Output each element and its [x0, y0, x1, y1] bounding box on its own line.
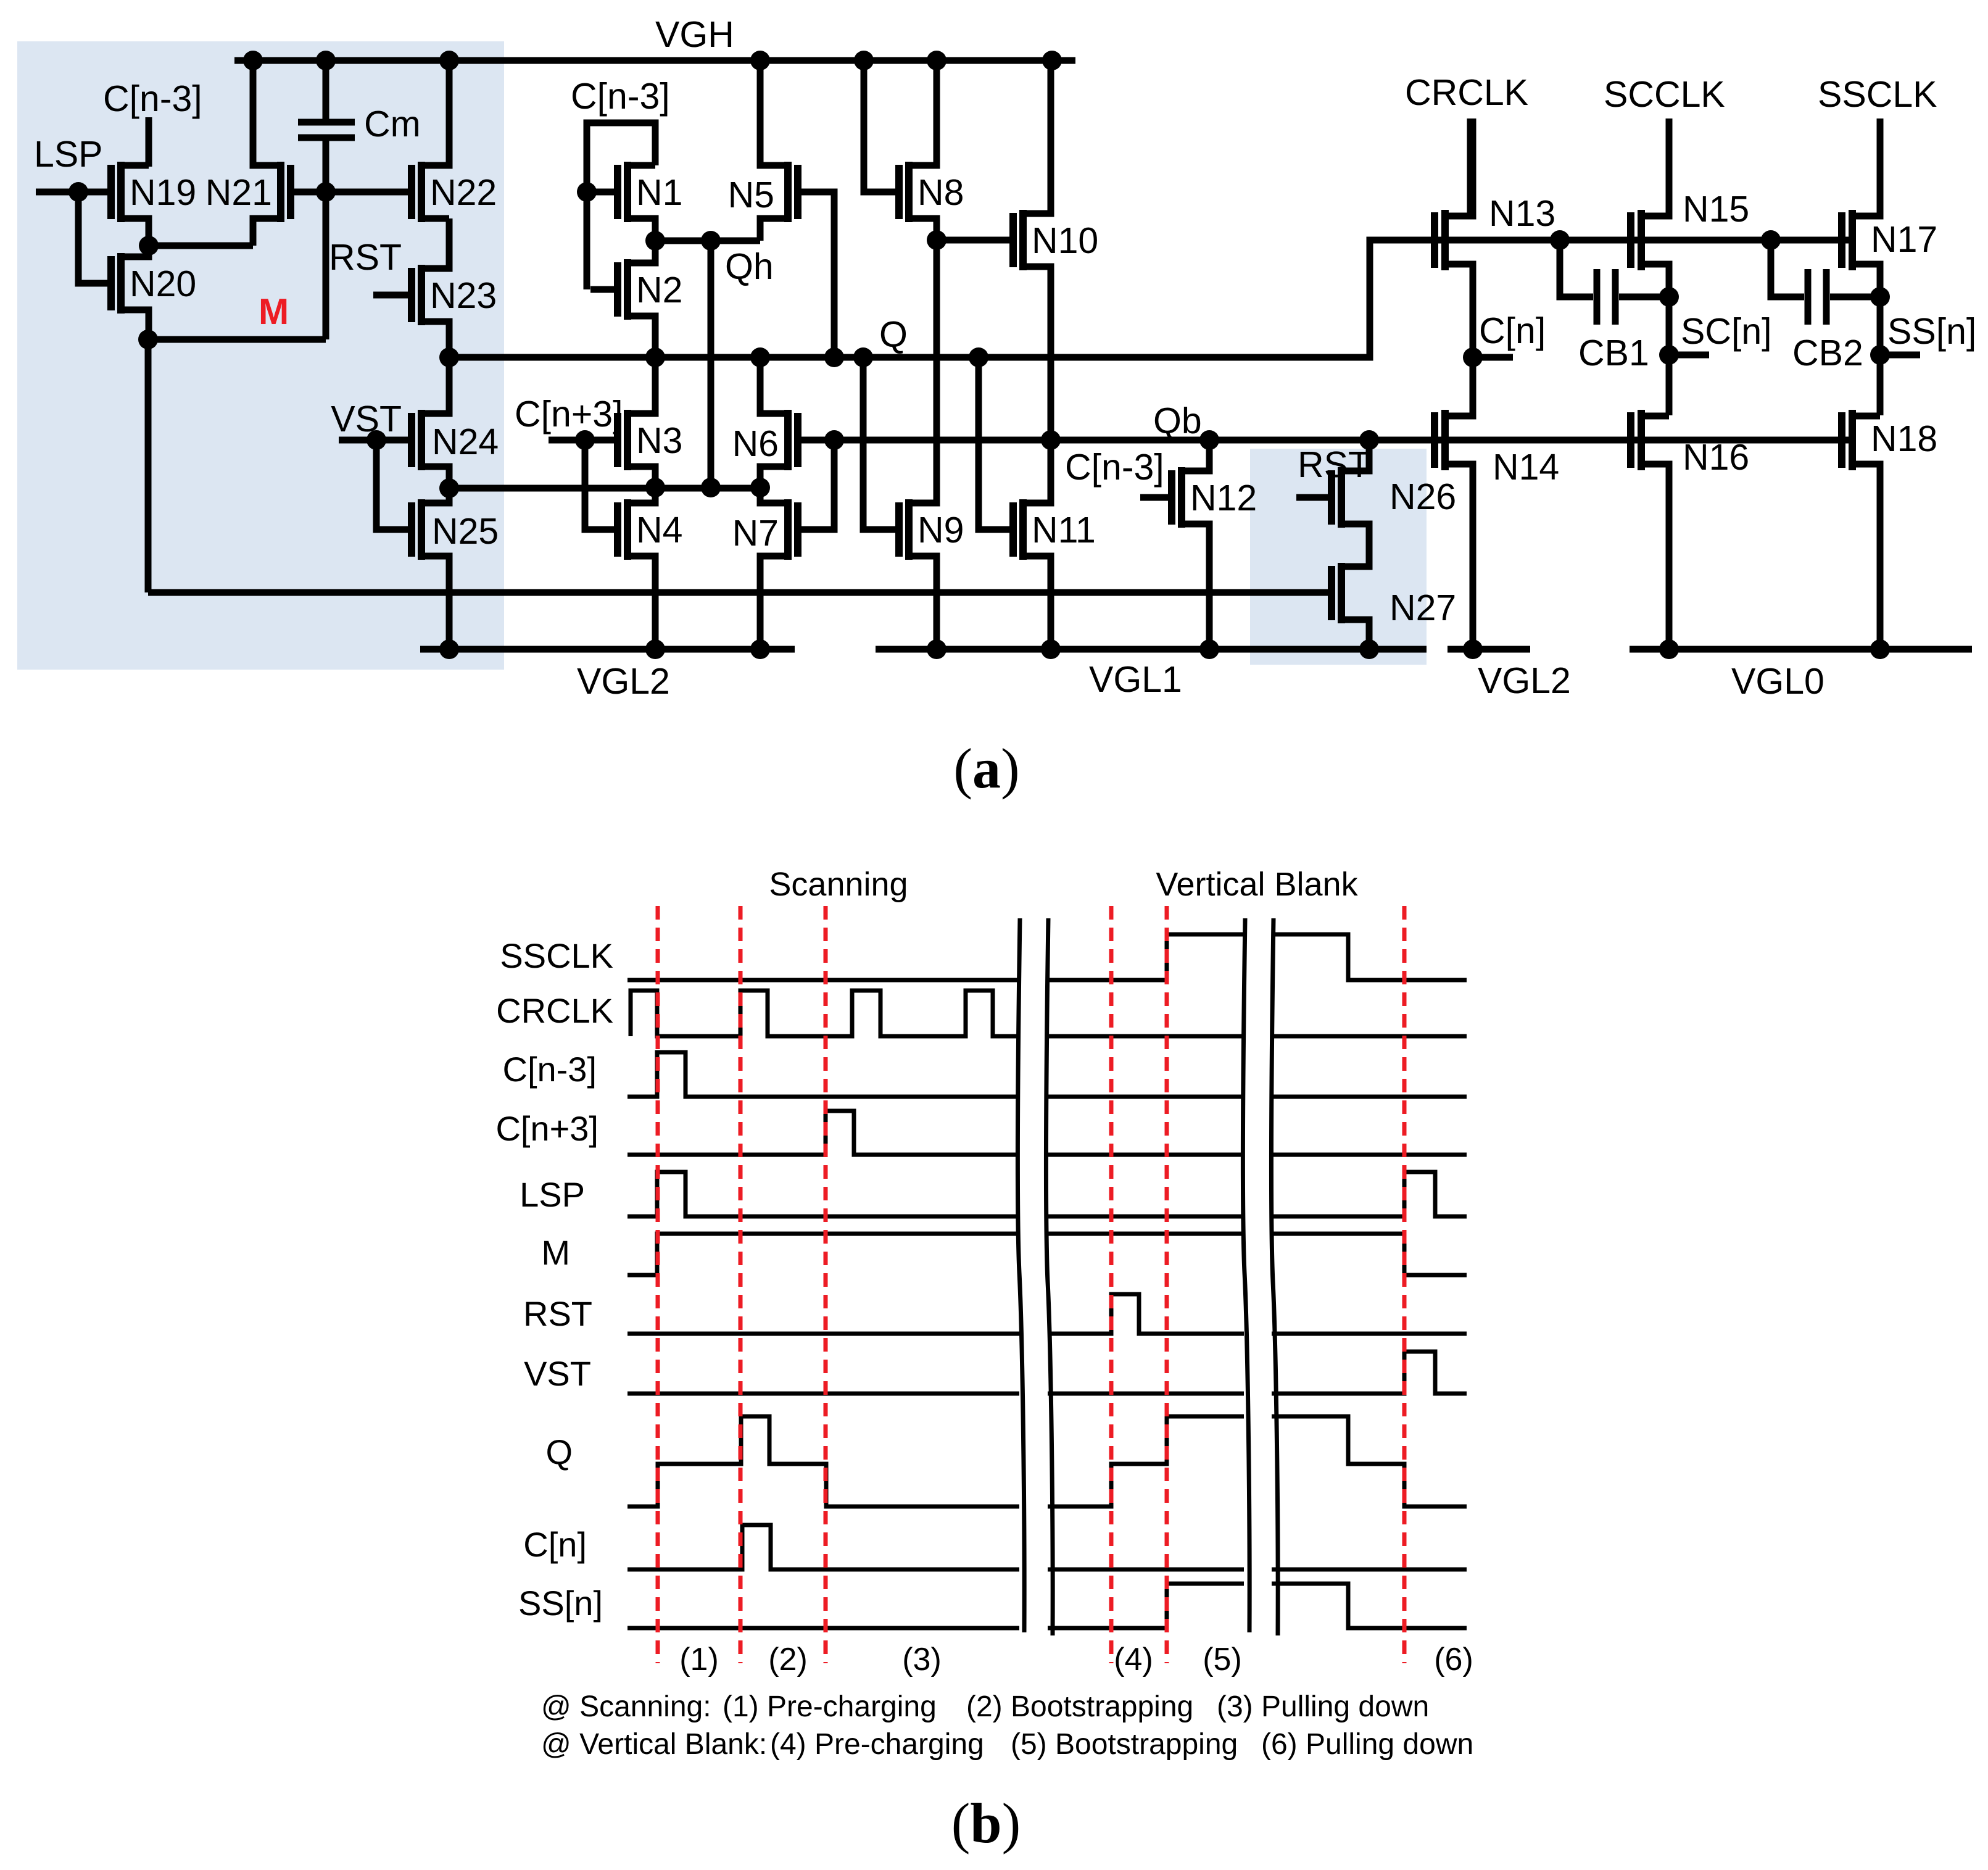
svg-text:Qh: Qh — [725, 246, 774, 287]
junction dot VST — [367, 430, 386, 450]
svg-text:(3): (3) — [902, 1642, 942, 1677]
svg-text:M: M — [541, 1233, 570, 1272]
svg-text:(5) Bootstrapping: (5) Bootstrapping — [1011, 1728, 1238, 1761]
svg-text:N14: N14 — [1493, 447, 1559, 488]
transistor N27 — [1332, 563, 1341, 623]
shaded region: N26/N27 block — [1250, 449, 1427, 665]
svg-text:Vertical Blank: Vertical Blank — [1156, 866, 1358, 903]
svg-text:N10: N10 — [1032, 220, 1098, 261]
svg-text:LSP: LSP — [520, 1175, 585, 1214]
transistor N3 — [618, 410, 627, 470]
wire N17-N18 chain — [1877, 297, 1884, 415]
junction dot VGL1 x=1703 — [1041, 639, 1061, 659]
wire VST to N25 gate — [376, 440, 408, 530]
junction dot N19/N20 — [139, 236, 159, 256]
wire N5 gate to Q — [801, 192, 834, 357]
junction dot SS[n] — [1870, 345, 1890, 365]
red dashed line 4 — [1109, 906, 1114, 1663]
waveform LSP part2 — [1048, 1215, 1244, 1219]
waveform LSP part1 — [627, 1172, 1019, 1216]
waveform C[n] part1 — [627, 1525, 1019, 1569]
transistor N25 — [412, 499, 421, 560]
svg-text:Cm: Cm — [364, 104, 421, 144]
wire VST lead — [339, 437, 408, 444]
svg-text:Q: Q — [879, 314, 908, 355]
wire C[n-3] to N19 drain — [146, 117, 152, 167]
junction dot SS chain CB2 — [1870, 287, 1890, 307]
junction dot Q x=1399 — [853, 347, 873, 367]
junction dot N20 source M — [138, 330, 158, 349]
svg-text:N18: N18 — [1871, 418, 1937, 459]
svg-text:N8: N8 — [917, 172, 964, 213]
junction dot Q x=1062 — [645, 347, 665, 367]
transistor N5 — [788, 162, 798, 222]
svg-text:N11: N11 — [1032, 510, 1096, 551]
wire M down-left long — [145, 339, 152, 592]
junction dot Qb x=1703 — [1041, 430, 1061, 450]
svg-text:RST: RST — [329, 237, 402, 278]
junction dot Q x=1586 — [969, 347, 988, 367]
svg-text:N7: N7 — [732, 513, 779, 554]
red dashed line 2 — [739, 906, 743, 1663]
wire LSP to N20 gate — [78, 192, 107, 283]
svg-text:(3) Pulling down: (3) Pulling down — [1217, 1690, 1429, 1723]
wire SSCLK lead — [1877, 118, 1884, 216]
svg-text:N20: N20 — [130, 264, 196, 304]
svg-text:N4: N4 — [636, 510, 682, 551]
transistor N23 — [412, 265, 421, 325]
junction dot N24/N25 — [439, 478, 459, 498]
svg-text:N22: N22 — [430, 172, 497, 213]
junction dot VGL0 x=3047 — [1870, 639, 1890, 659]
transistor N17 — [1842, 210, 1852, 270]
wire SCCLK lead — [1666, 118, 1673, 216]
svg-text:SSCLK: SSCLK — [500, 936, 613, 975]
red dashed line 5 — [1165, 906, 1169, 1663]
svg-text:(a): (a) — [953, 737, 1019, 800]
capacitor Cm — [298, 60, 355, 192]
svg-text:VGL2: VGL2 — [577, 661, 670, 702]
svg-text:C[n]: C[n] — [1479, 310, 1546, 351]
svg-text:SS[n]: SS[n] — [518, 1584, 603, 1623]
waveform VST part2 — [1048, 1392, 1244, 1396]
transistor N11 — [1013, 499, 1023, 560]
svg-text:RST: RST — [523, 1294, 592, 1333]
svg-text:C[n-3]: C[n-3] — [1065, 447, 1164, 488]
svg-text:(4): (4) — [1114, 1642, 1153, 1677]
junction dot row790 x=1232 — [750, 478, 770, 497]
junction dot Qb x=2219 — [1359, 430, 1379, 450]
svg-text:SCCLK: SCCLK — [1604, 74, 1725, 115]
junction dot VGH x=1400 — [854, 51, 874, 70]
transistor N8 — [899, 162, 909, 222]
red dashed line 3 — [824, 906, 828, 1663]
svg-text:C[n+3]: C[n+3] — [515, 394, 623, 434]
svg-text:CRCLK: CRCLK — [1405, 72, 1528, 113]
transistor N1 — [618, 162, 627, 222]
junction dot VGL0 x=2705 — [1659, 639, 1679, 659]
net Qb wire — [801, 437, 1856, 444]
transistor N15 — [1631, 210, 1641, 270]
capacitor CB2 — [1771, 240, 1880, 325]
junction dot Q start N23/N24 — [439, 347, 459, 367]
svg-text:(1): (1) — [679, 1642, 719, 1677]
waveform M part3 — [1272, 1234, 1467, 1275]
waveform SSCLK part2 — [1048, 934, 1244, 980]
wire N8 gate to VGH — [864, 60, 895, 192]
transistor N24 — [412, 410, 421, 470]
svg-text:N12: N12 — [1190, 478, 1257, 518]
svg-text:SC[n]: SC[n] — [1681, 311, 1772, 352]
svg-text:N16: N16 — [1683, 437, 1749, 478]
waveform Q part3 — [1272, 1416, 1467, 1506]
svg-text:(b): (b) — [951, 1792, 1021, 1855]
waveform RST part3 — [1272, 1332, 1467, 1336]
junction dot SC[n] — [1659, 345, 1679, 365]
junction dot Q x=1352 — [824, 347, 844, 367]
svg-text:N13: N13 — [1489, 193, 1555, 234]
transistor N7 — [788, 499, 798, 560]
wire M horizontal — [148, 336, 326, 343]
waveform C[n] part3 — [1272, 1568, 1467, 1572]
waveform M part2 — [1048, 1232, 1244, 1236]
VGL2 left rail — [420, 646, 795, 653]
transistor N14 — [1435, 410, 1445, 470]
junction dot VGL1 x=1960 — [1199, 639, 1219, 659]
svg-text:N26: N26 — [1390, 476, 1456, 517]
transistor N16 — [1631, 410, 1641, 470]
svg-text:SS[n]: SS[n] — [1887, 311, 1976, 352]
svg-text:N15: N15 — [1683, 189, 1749, 230]
junction dot VGH x=1232 — [750, 51, 770, 70]
svg-text:(5): (5) — [1203, 1642, 1242, 1677]
shaded region: left memory block — [17, 41, 504, 670]
net Q rail — [449, 240, 1856, 357]
node M vertical — [323, 192, 329, 339]
waveform RST part1 — [627, 1332, 1019, 1336]
svg-text:Q: Q — [545, 1432, 573, 1471]
svg-text:N6: N6 — [732, 423, 779, 464]
svg-text:VST: VST — [524, 1354, 591, 1393]
wire C[n+3] to N4 gate — [585, 440, 618, 530]
waveform RST part2 — [1048, 1294, 1244, 1334]
transistor N9 — [899, 499, 909, 560]
waveform CRCLK part1 — [631, 991, 1019, 1036]
svg-text:VGH: VGH — [655, 14, 734, 55]
svg-text:CB2: CB2 — [1792, 333, 1863, 373]
junction dot SC chain CB1 — [1659, 287, 1679, 307]
waveform SS[n] part3 — [1272, 1584, 1467, 1628]
wire CRCLK lead — [1467, 118, 1474, 216]
junction dot row790 x=1062 — [645, 478, 665, 497]
wire N7 gate to Qb — [801, 440, 834, 530]
waveform SSCLK part3 — [1272, 934, 1467, 980]
svg-text:N5: N5 — [728, 175, 774, 215]
junction dot LSP — [68, 182, 88, 202]
junction dot N8 source — [927, 230, 946, 250]
junction dot row790 Qh — [701, 478, 721, 497]
svg-text:CB1: CB1 — [1578, 333, 1649, 373]
wire long M-to-N27 gate — [148, 589, 1328, 596]
capacitor CB1 — [1560, 240, 1669, 325]
svg-text:Scanning: Scanning — [769, 866, 908, 903]
junction dot N1 gate — [577, 182, 597, 202]
svg-text:(2): (2) — [768, 1642, 808, 1677]
svg-text:N3: N3 — [636, 420, 682, 461]
svg-text:LSP: LSP — [34, 134, 103, 175]
junction dot CB2 tap — [1761, 230, 1781, 250]
svg-text:VGL2: VGL2 — [1478, 660, 1571, 701]
waveform CRCLK part2 — [1048, 1034, 1244, 1039]
junction dot VGH x=528 — [316, 51, 336, 70]
junction dot Qb x=1960 — [1199, 430, 1219, 450]
VGL1 rail — [876, 646, 1427, 653]
junction dot M node — [316, 182, 336, 202]
svg-text:VGL0: VGL0 — [1731, 661, 1824, 702]
svg-text:N1: N1 — [636, 172, 682, 213]
wire C[n+3] lead — [549, 437, 618, 444]
svg-text:(6) Pulling down: (6) Pulling down — [1261, 1728, 1473, 1761]
wire RST stub N23 — [373, 292, 408, 299]
break 2 curves — [1243, 918, 1278, 1635]
transistor N21 — [281, 162, 291, 222]
transistor N4 — [618, 499, 627, 560]
waveform M part1 — [627, 1234, 1019, 1275]
transistor N19 — [111, 162, 121, 222]
wire N11 gate to Q — [979, 357, 1009, 530]
transistor N20 — [111, 253, 121, 314]
junction dot VGL2-right x=2387 — [1463, 639, 1483, 659]
wire C[n-3] staple — [587, 123, 655, 289]
break 1 curves — [1017, 918, 1053, 1635]
wire LSP lead — [36, 189, 107, 196]
svg-text:SSCLK: SSCLK — [1818, 74, 1937, 115]
junction dot VGL1 x=2219 — [1359, 639, 1379, 659]
junction dot VGH x=728 — [439, 51, 459, 70]
wire Qh vertical — [708, 241, 714, 488]
junction dot VGL2-left x=728 — [439, 639, 459, 659]
wire N26 gate stub — [1296, 494, 1328, 501]
svg-text:M: M — [259, 291, 289, 332]
waveform LSP part3 — [1272, 1172, 1467, 1216]
VGL2 right rail — [1448, 646, 1530, 653]
junction dot Qb x=1352 — [824, 430, 844, 450]
junction dot VGH x=1518 — [927, 51, 946, 70]
waveform C[n+3] part3 — [1272, 1153, 1467, 1157]
wire N12 gate stub — [1140, 494, 1168, 501]
junction dot VGH x=410 — [243, 51, 263, 70]
waveform C[n+3] part2 — [1048, 1153, 1244, 1157]
waveform C[n-3] part2 — [1048, 1095, 1244, 1099]
svg-text:(2) Bootstrapping: (2) Bootstrapping — [966, 1690, 1193, 1723]
wire N15-N16 chain — [1666, 297, 1673, 415]
waveform SSCLK part1 — [627, 978, 1019, 983]
wire C[n] stub — [1473, 354, 1513, 361]
svg-text:@ Vertical Blank:: @ Vertical Blank: — [541, 1728, 767, 1761]
waveform C[n] part2 — [1048, 1568, 1244, 1572]
svg-text:VST: VST — [331, 399, 402, 439]
red dashed line 6 — [1402, 906, 1407, 1663]
svg-text:N21: N21 — [205, 172, 272, 213]
junction dot Qh node — [645, 231, 665, 251]
svg-text:N2: N2 — [636, 270, 682, 310]
wire SS[n] stub — [1880, 352, 1920, 359]
svg-text:N27: N27 — [1390, 588, 1456, 628]
transistor N10 — [1013, 210, 1023, 270]
transistor N13 — [1435, 210, 1445, 270]
waveform CRCLK part3 — [1272, 1034, 1467, 1039]
svg-text:VGL1: VGL1 — [1089, 659, 1182, 700]
transistor N26 — [1332, 467, 1341, 528]
junction dot Q x=1232 — [750, 347, 770, 367]
waveform C[n-3] part1 — [627, 1052, 1019, 1097]
junction dot VGL1 x=1518 — [927, 639, 946, 659]
svg-text:C[n-3]: C[n-3] — [503, 1050, 597, 1089]
svg-text:N25: N25 — [432, 511, 499, 552]
junction dot C[n+3] — [575, 430, 595, 450]
transistor N18 — [1842, 410, 1852, 470]
svg-text:(6): (6) — [1434, 1642, 1473, 1677]
svg-text:N9: N9 — [917, 510, 964, 551]
transistor N22 — [412, 162, 421, 222]
net Qh wire — [655, 238, 760, 244]
svg-text:C[n+3]: C[n+3] — [495, 1109, 598, 1148]
waveform Q part1 — [627, 1416, 1019, 1506]
svg-text:(1) Pre-charging: (1) Pre-charging — [723, 1690, 937, 1723]
waveform C[n-3] part3 — [1272, 1095, 1467, 1099]
svg-text:C[n-3]: C[n-3] — [571, 76, 670, 117]
wire row N24-N3-N6 junctions — [449, 485, 760, 492]
waveform C[n+3] part1 — [627, 1111, 1019, 1155]
transistor N12 — [1172, 467, 1182, 528]
svg-text:(4) Pre-charging: (4) Pre-charging — [770, 1728, 984, 1761]
svg-text:N17: N17 — [1871, 219, 1937, 260]
wire N9 gate to Q — [863, 357, 895, 530]
svg-text:N23: N23 — [430, 275, 497, 316]
junction dot VGL2-left x=1232 — [750, 639, 770, 659]
wire SC[n] stub — [1669, 352, 1709, 359]
junction dot CB1 tap — [1550, 230, 1570, 250]
junction dot C[n] node — [1463, 347, 1483, 367]
svg-text:@ Scanning:: @ Scanning: — [541, 1690, 711, 1723]
svg-text:C[n]: C[n] — [523, 1525, 587, 1564]
VGH rail — [234, 57, 1075, 64]
waveform SS[n] part2 — [1048, 1584, 1244, 1628]
junction dot VGL2-left x=1062 — [645, 639, 665, 659]
svg-text:Qb: Qb — [1153, 401, 1202, 441]
junction dot VGH x=1705 — [1042, 51, 1062, 70]
waveform Q part2 — [1048, 1416, 1244, 1506]
transistor N6 — [788, 410, 798, 470]
svg-text:CRCLK: CRCLK — [496, 991, 613, 1030]
svg-text:N24: N24 — [432, 422, 499, 462]
waveform VST part3 — [1272, 1352, 1467, 1394]
transistor N2 — [618, 259, 627, 320]
red dashed line 1 — [656, 906, 660, 1663]
waveform SS[n] part1 — [627, 1626, 1019, 1631]
wire N19 source to N21 source — [149, 243, 253, 249]
svg-text:N19: N19 — [130, 172, 196, 213]
junction dot Qh tap — [701, 231, 721, 251]
waveform VST part1 — [627, 1392, 1019, 1396]
svg-text:C[n-3]: C[n-3] — [103, 78, 202, 119]
VGL0 rail — [1630, 646, 1972, 653]
